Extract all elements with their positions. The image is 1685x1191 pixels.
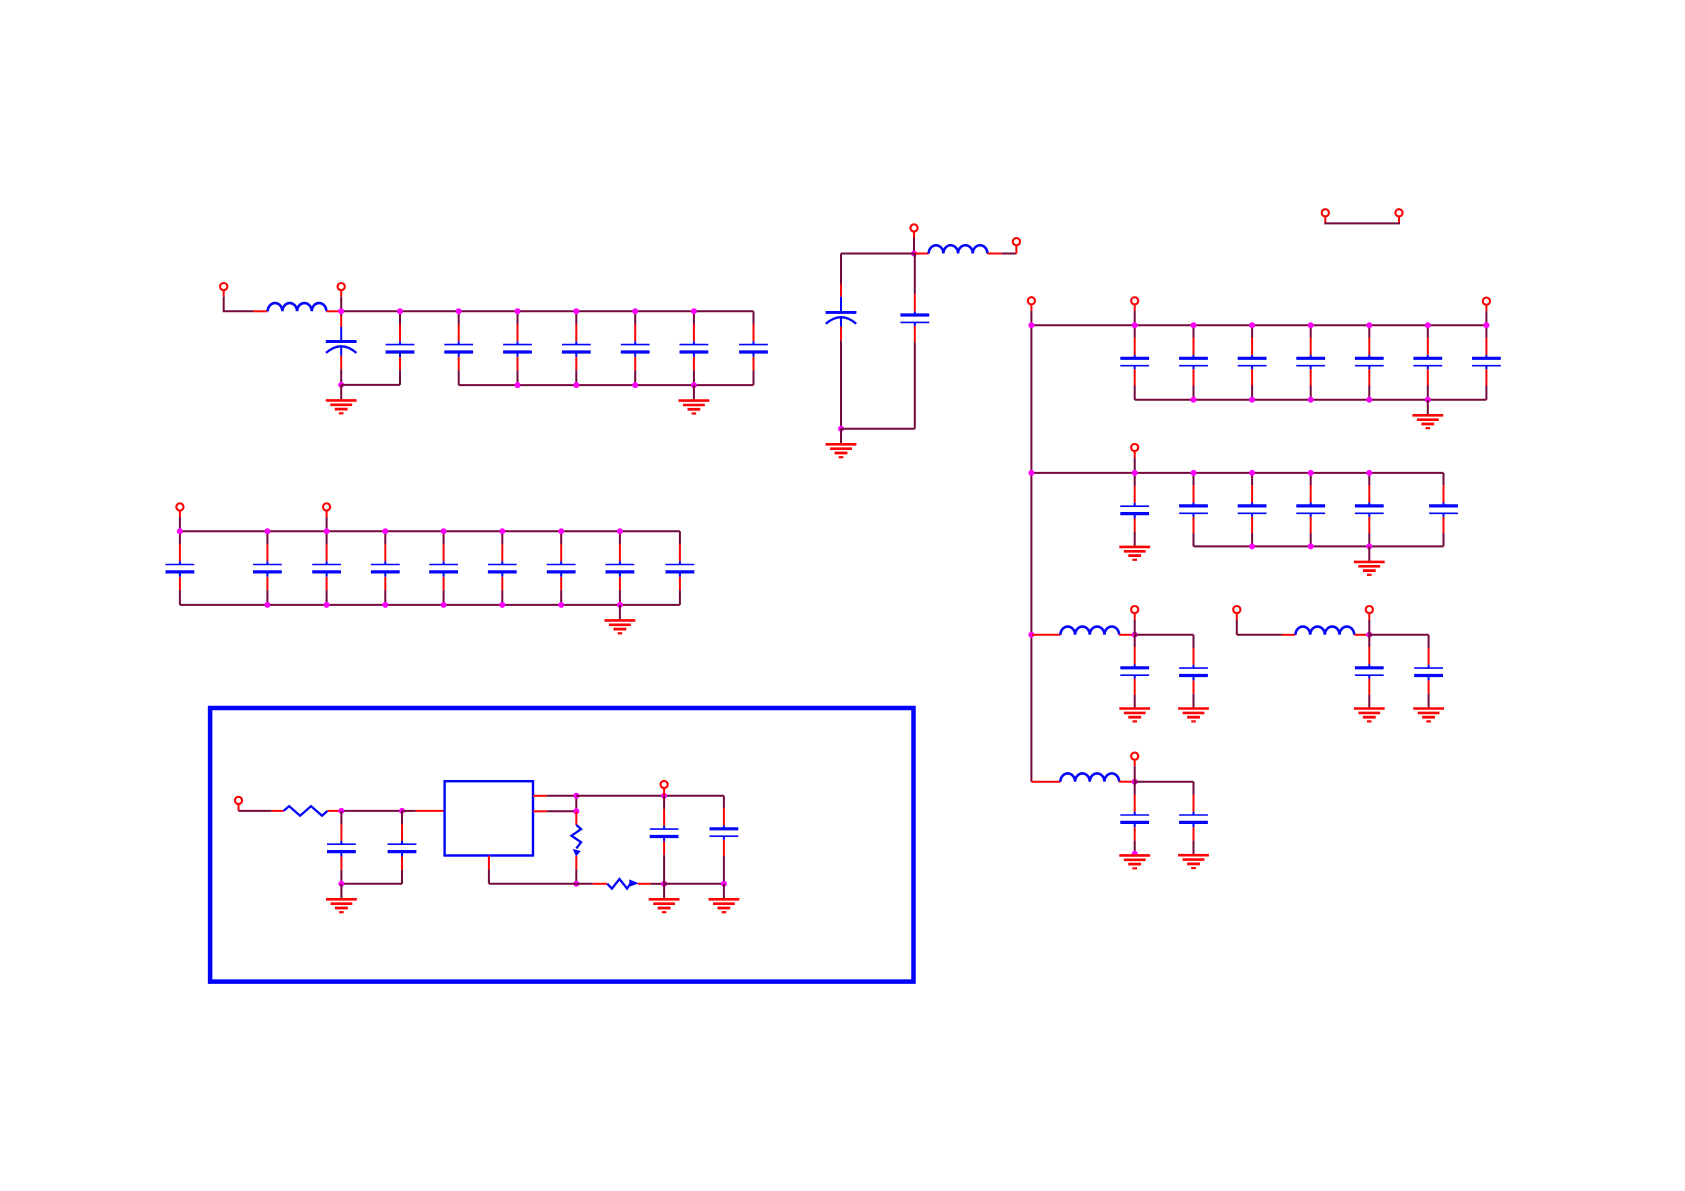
ground	[1119, 709, 1150, 722]
junction	[1249, 397, 1255, 403]
capacitor C36	[1429, 473, 1458, 547]
inductor L3	[1060, 627, 1119, 635]
capacitor C4	[503, 311, 532, 385]
regulator U1	[445, 781, 533, 855]
inductor L5	[1060, 773, 1119, 781]
wire	[341, 310, 753, 312]
wire	[1135, 781, 1194, 783]
wire	[1031, 634, 1060, 636]
port P4	[323, 503, 330, 510]
port P7	[910, 224, 917, 231]
wire	[664, 883, 724, 885]
capacitor C38	[1179, 635, 1208, 709]
wire	[576, 883, 593, 885]
capacitor C7	[680, 311, 709, 385]
junction	[441, 602, 447, 608]
wire	[651, 883, 664, 885]
junction	[515, 308, 521, 314]
capacitor C18	[327, 811, 356, 884]
wire	[1369, 634, 1428, 636]
wire	[638, 883, 651, 885]
wire	[575, 856, 577, 870]
junction	[1366, 397, 1372, 403]
inductor L1	[268, 303, 327, 311]
wire	[326, 511, 328, 518]
capacitor C2	[386, 311, 415, 385]
junction	[499, 528, 505, 534]
wire	[1485, 305, 1487, 312]
wire	[1237, 634, 1282, 636]
junction	[573, 881, 579, 887]
junction	[661, 881, 667, 887]
wire	[223, 290, 225, 297]
junction	[838, 426, 844, 432]
capacitor C12	[371, 531, 400, 605]
junction	[1191, 322, 1197, 328]
wire	[1119, 781, 1133, 783]
junction	[382, 602, 388, 608]
capacitor C33	[1238, 473, 1267, 547]
junction	[1425, 322, 1431, 328]
junction	[1366, 543, 1372, 549]
wire	[239, 810, 272, 812]
wire	[488, 869, 490, 883]
wire	[253, 310, 267, 312]
port P6	[661, 781, 668, 788]
wire	[1135, 399, 1487, 401]
junction	[1366, 470, 1372, 476]
wire	[593, 883, 608, 885]
port P14	[1131, 444, 1138, 451]
junction	[264, 528, 270, 534]
wire	[575, 796, 577, 812]
port P2	[338, 283, 345, 290]
wire	[1368, 613, 1370, 620]
capacitor C35	[1355, 473, 1384, 547]
junction	[632, 308, 638, 314]
wire	[1030, 325, 1032, 781]
ground	[1413, 709, 1444, 722]
capacitor C19	[388, 811, 417, 884]
inductor L4	[1296, 627, 1355, 635]
wire	[1030, 304, 1032, 311]
wire	[1119, 634, 1133, 636]
wire	[547, 795, 577, 797]
wire	[402, 810, 416, 812]
wire	[340, 385, 342, 400]
wire	[1031, 472, 1443, 474]
port P9	[1322, 209, 1329, 216]
port P3	[176, 503, 183, 510]
capacitor C24	[1120, 325, 1149, 400]
capacitor C17	[666, 531, 695, 605]
ground	[1412, 415, 1443, 428]
wire	[180, 530, 680, 532]
junction	[1132, 322, 1138, 328]
wire	[1031, 324, 1486, 326]
junction	[1132, 851, 1138, 857]
capacitor C20	[650, 796, 679, 884]
wire	[1015, 245, 1017, 253]
wire	[238, 804, 240, 811]
capacitor C1 (polarized)	[326, 311, 357, 385]
capacitor C27	[1296, 325, 1325, 400]
junction	[399, 808, 405, 814]
junction	[397, 308, 403, 314]
capacitor C30	[1472, 325, 1501, 400]
junction	[338, 382, 344, 388]
junction	[1028, 322, 1034, 328]
junction	[1132, 470, 1138, 476]
port P8	[1013, 238, 1020, 245]
wire	[575, 811, 577, 825]
capacitor C10	[253, 531, 282, 605]
port P18	[1131, 753, 1138, 760]
junction	[382, 528, 388, 534]
capacitor C22 (polarized)	[826, 254, 857, 429]
wire	[341, 883, 402, 885]
wire	[914, 253, 929, 255]
wire	[663, 788, 665, 796]
wire	[533, 795, 547, 797]
junction	[1191, 470, 1197, 476]
enclosure box	[210, 708, 913, 982]
junction	[691, 308, 697, 314]
wire	[841, 428, 915, 430]
capacitor C31	[1120, 473, 1149, 547]
capacitor C26	[1238, 325, 1267, 400]
wire	[1398, 216, 1400, 222]
junction	[1028, 470, 1034, 476]
wire	[1368, 546, 1370, 561]
junction	[338, 308, 344, 314]
ground	[605, 620, 636, 633]
capacitor C8	[739, 311, 768, 385]
wire	[1282, 634, 1296, 636]
junction	[1308, 470, 1314, 476]
junction	[721, 881, 727, 887]
ground	[649, 899, 680, 912]
junction	[1366, 322, 1372, 328]
wire	[576, 795, 724, 797]
wire	[341, 810, 402, 812]
wire	[272, 810, 284, 812]
junction	[441, 528, 447, 534]
port P1	[220, 283, 227, 290]
capacitor C3	[444, 311, 473, 385]
junction	[558, 528, 564, 534]
wire	[547, 810, 577, 812]
capacitor C28	[1355, 325, 1384, 400]
ground	[1354, 562, 1385, 575]
ground	[1119, 547, 1150, 560]
junction	[617, 528, 623, 534]
port P12	[1131, 297, 1138, 304]
junction	[1249, 543, 1255, 549]
junction	[1308, 397, 1314, 403]
junction	[1191, 397, 1197, 403]
ground	[1178, 709, 1209, 722]
port P13	[1483, 298, 1490, 305]
wire	[180, 604, 680, 606]
wire	[663, 884, 665, 899]
junction	[1308, 322, 1314, 328]
ground	[326, 400, 357, 413]
capacitor C9	[166, 531, 195, 605]
junction	[1132, 632, 1138, 638]
ground	[709, 899, 740, 912]
ground	[679, 401, 710, 414]
junction	[324, 528, 330, 534]
wire	[1427, 400, 1429, 415]
capacitor C5	[562, 311, 591, 385]
junction	[691, 382, 697, 388]
resistor R3	[607, 879, 631, 889]
junction	[456, 308, 462, 314]
wire	[340, 290, 342, 297]
ground	[826, 444, 857, 457]
capacitor C40	[1414, 635, 1443, 709]
port P11	[1028, 297, 1035, 304]
wire	[1324, 216, 1326, 222]
resistor R1	[284, 806, 328, 816]
capacitor C25	[1179, 325, 1208, 400]
capacitor C32	[1179, 473, 1208, 547]
junction	[1249, 322, 1255, 328]
junction	[1425, 397, 1431, 403]
capacitor C41	[1120, 782, 1149, 856]
capacitor C11	[312, 531, 341, 605]
capacitor C13	[429, 531, 458, 605]
wire	[341, 384, 400, 386]
wire	[987, 253, 1001, 255]
junction	[573, 793, 579, 799]
wire	[1134, 760, 1136, 767]
wire	[328, 810, 341, 812]
ground	[1178, 855, 1209, 868]
junction	[499, 602, 505, 608]
junction	[1483, 322, 1489, 328]
wire	[533, 810, 547, 812]
capacitor C21	[710, 796, 739, 884]
port P15	[1131, 606, 1138, 613]
capacitor C6	[621, 311, 650, 385]
wire	[1354, 634, 1367, 636]
wire	[840, 429, 842, 444]
junction	[661, 793, 667, 799]
junction	[1366, 632, 1372, 638]
junction	[573, 382, 579, 388]
wire	[489, 883, 576, 885]
junction	[515, 382, 521, 388]
junction	[1132, 779, 1138, 785]
junction	[338, 881, 344, 887]
wire	[488, 856, 490, 870]
ground	[1119, 855, 1150, 868]
capacitor C16	[606, 531, 635, 605]
junction	[264, 602, 270, 608]
junction	[911, 251, 917, 257]
junction	[617, 602, 623, 608]
wire	[619, 605, 621, 620]
port P17	[1366, 606, 1373, 613]
port P10	[1395, 209, 1402, 216]
wire	[1236, 613, 1238, 620]
port P5	[235, 797, 242, 804]
junction	[558, 602, 564, 608]
junction	[338, 808, 344, 814]
junction	[177, 528, 183, 534]
capacitor C39	[1355, 635, 1384, 709]
capacitor C42	[1179, 782, 1208, 855]
wire	[1002, 253, 1017, 255]
capacitor C34	[1296, 473, 1325, 547]
capacitor C29	[1413, 325, 1442, 400]
wire	[223, 310, 254, 312]
wire	[841, 253, 914, 255]
wire	[1031, 781, 1060, 783]
junction	[573, 808, 579, 814]
junction	[632, 382, 638, 388]
capacitor C23	[900, 254, 929, 429]
wire	[1134, 613, 1136, 620]
wire	[459, 384, 754, 386]
junction	[324, 602, 330, 608]
ground	[1354, 709, 1385, 722]
wire	[1194, 545, 1444, 547]
wire	[340, 884, 342, 899]
wire	[723, 884, 725, 899]
capacitor C14	[488, 531, 517, 605]
wire	[1324, 222, 1400, 224]
port P16	[1233, 606, 1240, 613]
ground	[326, 899, 357, 912]
wire	[913, 232, 915, 238]
junction	[1028, 632, 1034, 638]
capacitor C37	[1120, 635, 1149, 709]
wire	[693, 385, 695, 400]
wire	[416, 810, 445, 812]
wire	[1135, 634, 1194, 636]
wire	[1134, 304, 1136, 311]
wire	[575, 869, 577, 884]
capacitor C15	[547, 531, 576, 605]
wire	[326, 310, 339, 312]
inductor L2	[929, 245, 988, 253]
wire	[179, 511, 181, 518]
junction	[1308, 543, 1314, 549]
resistor R2	[572, 825, 582, 849]
wire	[1134, 451, 1136, 458]
junction	[1249, 470, 1255, 476]
junction	[573, 308, 579, 314]
